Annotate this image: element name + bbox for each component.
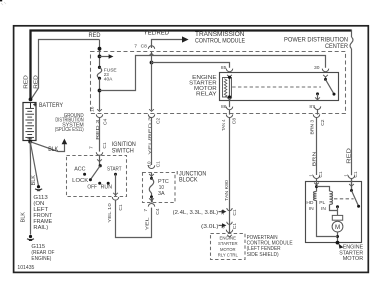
solenoid dashed actuation xyxy=(334,198,354,200)
connector C2 pin 3 xyxy=(148,114,154,117)
svg-text:RED: RED xyxy=(346,148,352,164)
svg-text:ENGINE): ENGINE) xyxy=(31,256,51,262)
wire: RED drop into PDC and to fuse xyxy=(99,40,101,68)
node: battery positive junction xyxy=(29,98,33,102)
node: junction at PDC entry xyxy=(98,47,102,51)
svg-text:C4: C4 xyxy=(102,118,108,125)
scan corner artifact xyxy=(0,0,2,1)
battery xyxy=(23,103,37,142)
ignition switch dashed box xyxy=(67,156,127,197)
svg-text:ACC: ACC xyxy=(74,167,85,173)
svg-text:7: 7 xyxy=(143,209,149,212)
svg-text:SIDE SHIELD): SIDE SHIELD) xyxy=(247,252,279,258)
svg-text:IN: IN xyxy=(309,206,314,212)
svg-text:RED: RED xyxy=(24,75,30,89)
connector C4 pin 7 (junction block lower) xyxy=(148,204,154,207)
connector C4 pin 16 (RED exit from PDC) xyxy=(96,114,102,117)
svg-text:16: 16 xyxy=(90,106,96,112)
svg-text:3A: 3A xyxy=(158,191,165,197)
wire: BLK battery negative to G113 (diagonal) xyxy=(30,142,38,186)
wire: YEL/RED 3 down through PDC xyxy=(151,52,153,111)
svg-text:(2.4L, 3.3L, 3.8L): (2.4L, 3.3L, 3.8L) xyxy=(173,210,219,216)
svg-text:7: 7 xyxy=(89,146,95,149)
svg-text:CENTER: CENTER xyxy=(325,43,348,50)
svg-text:31: 31 xyxy=(220,209,226,215)
START output xyxy=(115,174,117,196)
svg-text:IN: IN xyxy=(321,206,326,212)
svg-text:SWITCH: SWITCH xyxy=(112,147,134,154)
motor terminal xyxy=(332,215,342,220)
svg-text:YEL 10: YEL 10 xyxy=(107,203,113,223)
svg-text:BRN 3: BRN 3 xyxy=(309,120,315,135)
PCM dashed box: engine starter motor relay control xyxy=(226,230,232,233)
svg-text:CONTROL MODULE: CONTROL MODULE xyxy=(195,38,245,45)
svg-text:C1: C1 xyxy=(353,171,359,178)
ignition switch internals xyxy=(72,155,122,196)
RED entry and switch xyxy=(351,178,353,190)
label TRANSMISSION CONTROL MODULE xyxy=(195,31,245,44)
pin 87 exit xyxy=(315,97,320,99)
node: battery negative junction xyxy=(28,140,32,144)
svg-text:RED: RED xyxy=(89,32,101,39)
svg-text:TAN K90: TAN K90 xyxy=(224,180,230,201)
svg-text:START: START xyxy=(107,167,122,173)
relay coil xyxy=(223,76,232,99)
wire: BRN to starter solenoid xyxy=(316,117,318,175)
svg-text:RAIL): RAIL) xyxy=(33,225,48,231)
svg-text:C8: C8 xyxy=(141,44,148,50)
starter internals xyxy=(306,178,360,244)
svg-text:C8: C8 xyxy=(232,118,238,125)
node: branch to other circuits xyxy=(98,55,102,59)
ground G115 xyxy=(27,235,34,241)
label FUSE 23 40A xyxy=(104,67,118,82)
YEL/RED wire from C8 top to TCM arrow xyxy=(152,40,183,49)
svg-text:RLY CTRL: RLY CTRL xyxy=(218,252,238,258)
svg-text:40A: 40A xyxy=(104,76,113,82)
BRN entry xyxy=(316,178,318,191)
switch blade to LOCK xyxy=(91,166,101,180)
svg-text:85: 85 xyxy=(221,65,227,71)
PTC 10 3A circuit breaker xyxy=(149,173,154,203)
svg-text:BLK: BLK xyxy=(48,146,59,153)
pull-in coil to motor node xyxy=(330,205,338,211)
wire: BLK battery negative to G115 xyxy=(29,142,31,235)
wire: RED feed down right side to starter (with fusible link squiggle) xyxy=(350,30,353,191)
wire: TAN K90 to PCM xyxy=(229,117,231,233)
svg-text:RED 3: RED 3 xyxy=(95,119,101,139)
label POWER DISTRIBUTION CENTER xyxy=(284,37,348,50)
hold-in coil xyxy=(314,192,317,201)
relay internal dashed actuation line xyxy=(232,86,321,88)
svg-text:10: 10 xyxy=(146,161,152,167)
fuse 23 40A xyxy=(98,66,101,69)
svg-text:YEL/RED 3: YEL/RED 3 xyxy=(147,116,153,154)
svg-text:OFF: OFF xyxy=(87,185,97,191)
svg-text:PL: PL xyxy=(319,200,325,206)
wire: RED 3 down to ignition switch xyxy=(99,117,101,151)
connector C2 pin 3 (BRN exit from PDC) xyxy=(313,114,319,117)
svg-text:HD: HD xyxy=(306,200,314,206)
label POWERTRAIN CONTROL MODULE (LEFT FENDER SIDE SHIELD) xyxy=(247,235,293,258)
connector C8 pin 4 (TAN exit from PDC) xyxy=(226,114,232,117)
connector C1 pin 31 (2.4L,3.3L,3.8L) xyxy=(227,208,232,211)
svg-text:C1: C1 xyxy=(232,209,238,216)
svg-text:TAN 4: TAN 4 xyxy=(221,119,227,131)
label ENGINE STARTER MOTOR with pointer xyxy=(339,244,344,249)
svg-text:STARTER: STARTER xyxy=(218,241,238,247)
svg-text:7: 7 xyxy=(134,44,137,50)
svg-text:C4: C4 xyxy=(155,208,161,215)
svg-text:ENGINE: ENGINE xyxy=(220,236,237,242)
svg-text:MOTOR: MOTOR xyxy=(220,247,236,253)
label GROUND DISTRIBUTION SYSTEM (SPLICE ES11) xyxy=(55,113,84,133)
arrow to splice ES11 xyxy=(62,139,68,145)
svg-text:1: 1 xyxy=(309,174,315,177)
svg-text:C1: C1 xyxy=(156,161,162,168)
svg-text:BLK: BLK xyxy=(31,175,37,186)
label IGNITION SWITCH xyxy=(112,141,136,154)
label JUNCTION BLOCK xyxy=(176,171,178,174)
svg-text:BATTERY: BATTERY xyxy=(39,102,63,109)
connector C1 pin 10 (junction block upper) xyxy=(148,165,154,168)
svg-text:C2: C2 xyxy=(320,119,326,126)
node: YEL/RED junction to relay coil 85 xyxy=(150,61,154,65)
wire: BLK battery negative to ground distribution splice arrow xyxy=(30,142,64,152)
relay switch xyxy=(316,77,336,100)
wire: thin RED from battery+ up over to fuse drop xyxy=(31,40,99,100)
svg-text:YEL/RED: YEL/RED xyxy=(144,30,170,37)
svg-text:C1: C1 xyxy=(318,171,324,178)
svg-text:LOCK: LOCK xyxy=(72,178,88,184)
connector C1 pin 1 (RED at starter) xyxy=(348,175,354,178)
connector C1 pin 8 (3.0L) xyxy=(227,222,232,225)
svg-text:RELAY: RELAY xyxy=(196,92,217,98)
svg-text:8: 8 xyxy=(220,226,226,229)
wire: fuse output over to relay terminals 85 and 30 xyxy=(100,56,326,91)
wire: YEL/RED branch to relay 85 xyxy=(152,63,230,68)
label G115 (REAR OF ENGINE) xyxy=(31,244,54,262)
svg-text:C1: C1 xyxy=(232,223,238,230)
label ENGINE STARTER MOTOR RELAY xyxy=(189,75,217,98)
svg-text:(SPLICE ES11): (SPLICE ES11) xyxy=(55,127,84,133)
hold-in coil to ground node xyxy=(317,201,338,237)
wire: YEL 10 down, across, and up to junction block xyxy=(116,200,152,238)
label G113 (ON LEFT FRONT FRAME RAIL) xyxy=(33,195,52,231)
connector C1 pin 1 (BRN at starter) xyxy=(313,175,319,178)
svg-text:(3.0L): (3.0L) xyxy=(201,224,219,230)
svg-text:YEL: YEL xyxy=(144,217,150,230)
svg-text:BLK: BLK xyxy=(20,212,26,223)
svg-text:BRN: BRN xyxy=(312,151,318,167)
svg-text:101435: 101435 xyxy=(17,265,34,271)
engine starter motor box xyxy=(306,182,362,243)
svg-text:30: 30 xyxy=(314,65,320,71)
wire: YEL/RED 3 down to junction block xyxy=(151,117,153,165)
relay box (engine starter motor relay) xyxy=(220,73,339,101)
pin 86 exit xyxy=(227,97,232,99)
svg-text:C1: C1 xyxy=(102,142,108,149)
svg-text:M: M xyxy=(335,224,340,231)
svg-text:1: 1 xyxy=(343,174,349,177)
ground node dot on box bottom xyxy=(336,241,340,245)
connector C1 (ignition START output, YEL 10) xyxy=(112,197,118,200)
wire: thick RED battery feed, battery+ up and across top to right side xyxy=(31,31,352,101)
power distribution center dashed box xyxy=(91,52,346,114)
svg-text:C1: C1 xyxy=(118,204,124,211)
ground G113 xyxy=(35,185,42,191)
svg-text:RUN: RUN xyxy=(101,185,112,191)
svg-text:MOTOR: MOTOR xyxy=(343,256,364,262)
junction block dashed box xyxy=(143,173,176,203)
wire: branch arrow to other circuits xyxy=(100,56,110,58)
node: fuse output junction xyxy=(98,89,102,93)
page border frame xyxy=(14,26,369,273)
svg-text:C2: C2 xyxy=(155,117,161,124)
pull-in coil branch xyxy=(317,187,330,192)
svg-text:BLOCK: BLOCK xyxy=(179,177,198,184)
connector C1 pin 7 (ignition switch feed) xyxy=(96,152,102,155)
svg-text:RED: RED xyxy=(34,75,40,89)
motor M xyxy=(332,221,343,232)
